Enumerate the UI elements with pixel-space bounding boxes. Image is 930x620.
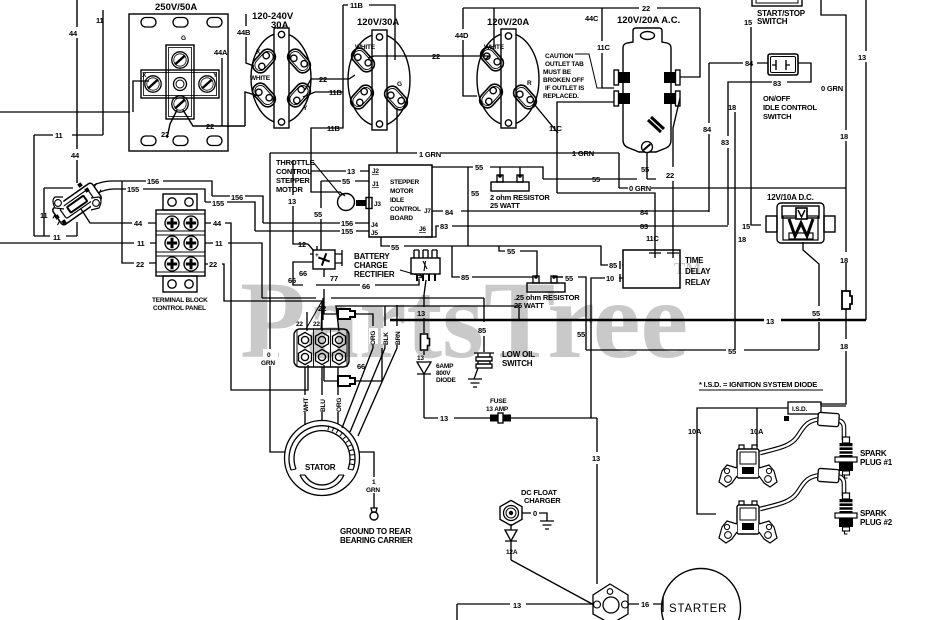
svg-text:ORG: ORG [336, 398, 343, 412]
svg-text:RELAY: RELAY [685, 278, 711, 287]
svg-text:66: 66 [299, 269, 307, 278]
resistor .25 ohm body [527, 283, 565, 292]
screw Y right [199, 76, 215, 92]
svg-text:J5: J5 [371, 230, 378, 237]
wire 18 vertical mid [734, 112, 736, 350]
breaker left mounting ear [53, 197, 64, 209]
svg-text:13: 13 [858, 53, 866, 62]
svg-text:11C: 11C [549, 124, 563, 133]
svg-text:SWITCH: SWITCH [502, 359, 533, 368]
svg-text:84: 84 [703, 125, 712, 134]
wire 0 to ground [522, 513, 547, 521]
svg-text:11: 11 [40, 211, 48, 220]
wire 44D [463, 8, 477, 96]
svg-text:22: 22 [642, 4, 650, 13]
right terminals [664, 70, 680, 106]
stator outer circle [285, 421, 360, 496]
left wires 44/11/22 [0, 181, 156, 263]
wire 83 from J6 [425, 226, 728, 237]
starter circle [662, 569, 741, 620]
svg-text:BROKEN OFF: BROKEN OFF [543, 77, 584, 84]
left ear [719, 465, 737, 487]
svg-text:IDLE CONTROL: IDLE CONTROL [763, 103, 817, 112]
terminal screws row 11 [165, 236, 179, 250]
charger connector [500, 500, 522, 525]
svg-text:PLUG #1: PLUG #1 [860, 458, 893, 467]
svg-text:155: 155 [341, 227, 353, 236]
svg-text:22: 22 [136, 260, 144, 269]
svg-text:IDLE: IDLE [390, 197, 405, 204]
terminal screws row 44 [165, 216, 179, 230]
svg-text:22: 22 [313, 321, 320, 328]
svg-text:22: 22 [666, 171, 674, 180]
breaker terminal studs [77, 182, 83, 188]
ground symbol [540, 521, 554, 529]
wire 44 vertical left [76, 0, 78, 183]
svg-text:GRN: GRN [366, 487, 380, 494]
wire 83 from switch [728, 63, 811, 225]
svg-text:K: K [256, 49, 261, 56]
wire diagonal to engine ground [511, 560, 594, 605]
svg-text:83: 83 [773, 79, 781, 88]
diode 6amp 800v [417, 362, 431, 374]
svg-text:I.S.D.: I.S.D. [792, 406, 807, 413]
svg-text:0 GRN: 0 GRN [821, 84, 843, 93]
svg-text:13: 13 [288, 197, 296, 206]
svg-text:55: 55 [475, 163, 483, 172]
svg-text:44: 44 [71, 151, 80, 160]
board rect [369, 165, 432, 237]
svg-text:11B: 11B [327, 124, 341, 133]
resistor 2 ohm body [491, 182, 529, 191]
svg-text:120V/30A: 120V/30A [357, 17, 399, 28]
svg-text:MUST BE: MUST BE [543, 69, 572, 76]
svg-text:84: 84 [445, 208, 454, 217]
mounting strap [274, 28, 289, 128]
svg-text:FUSE: FUSE [490, 398, 507, 405]
svg-text:15: 15 [742, 222, 750, 231]
wire 13 from regulator down [424, 280, 426, 355]
svg-text:13: 13 [513, 601, 521, 610]
svg-text:11C: 11C [646, 234, 660, 243]
svg-text:1 GRN: 1 GRN [419, 150, 441, 159]
connector block [294, 329, 349, 367]
start/stop switch box [752, 0, 802, 6]
label ORG vertical [369, 328, 378, 344]
svg-text:120V/20A A.C.: 120V/20A A.C. [617, 15, 680, 26]
svg-text:18: 18 [728, 103, 736, 112]
wire 13 into J2 [311, 170, 369, 172]
wire 155 into J5 [255, 230, 369, 232]
slot top-right [285, 46, 314, 75]
spark cable 2 [760, 475, 844, 509]
label ORG [334, 395, 343, 412]
right ear [759, 465, 777, 487]
svg-text:11B: 11B [329, 88, 343, 97]
stepper motor circle [338, 194, 355, 211]
bullet connector 77-ORG [338, 309, 355, 319]
svg-text:CHARGER: CHARGER [524, 496, 561, 505]
breaker right mounting ear [91, 197, 101, 210]
slot X top-left [250, 46, 279, 75]
svg-text:12A: 12A [506, 549, 518, 556]
svg-text:44B: 44B [237, 28, 251, 37]
wire 44A vertical [221, 58, 223, 126]
svg-text:11: 11 [96, 16, 104, 25]
ISD box [788, 402, 821, 414]
svg-text:GROUND TO REAR: GROUND TO REAR [340, 527, 411, 536]
ground symbol [468, 379, 482, 387]
terminal screws row 22 [165, 257, 179, 271]
svg-text:CONTROL: CONTROL [390, 206, 421, 213]
label 1 GRN [369, 477, 380, 493]
wire 55 rail lower [586, 349, 819, 351]
svg-text:11C: 11C [597, 43, 611, 52]
svg-text:55: 55 [577, 330, 585, 339]
slot Y bottom-right [285, 80, 314, 109]
label WHT [301, 395, 310, 412]
label BLU [318, 395, 327, 412]
svg-text:13: 13 [417, 355, 424, 362]
svg-text:13: 13 [592, 454, 600, 463]
DC receptacle [766, 203, 835, 243]
svg-text:16: 16 [641, 600, 649, 609]
svg-text:CONTROL PANEL: CONTROL PANEL [153, 305, 206, 312]
svg-text:ON/OFF: ON/OFF [763, 94, 791, 103]
svg-text:83: 83 [721, 138, 729, 147]
svg-text:18: 18 [840, 132, 848, 141]
wire 13 fuse rail [424, 418, 597, 584]
svg-text:11: 11 [55, 131, 63, 140]
wire 22 from bottom screw right [167, 92, 259, 138]
svg-text:83: 83 [640, 222, 648, 231]
color wires down to stator [342, 345, 397, 436]
slot R right [511, 82, 540, 111]
wire y298 rail [262, 298, 484, 320]
terminal block body [156, 194, 205, 292]
ground screw bottom [642, 142, 653, 153]
svg-text:22: 22 [319, 75, 327, 84]
wire 66 from rectifier [293, 262, 419, 285]
stator top wires WHT/BLU/ORG [305, 367, 338, 425]
wire ISD right [821, 405, 846, 407]
svg-text:STARTER: STARTER [669, 603, 727, 615]
svg-text:156: 156 [147, 177, 159, 186]
svg-text:DELAY: DELAY [685, 267, 711, 276]
svg-text:13: 13 [440, 414, 448, 423]
wire 77 from rectifier [323, 269, 325, 311]
svg-text:15: 15 [744, 18, 752, 27]
wire 11C left terminal lower [557, 102, 655, 250]
svg-text:83: 83 [440, 222, 448, 231]
starter left tick [662, 597, 664, 612]
outlet 250V/50A body [129, 14, 228, 151]
wire 13 thick rail [390, 319, 866, 322]
svg-text:12: 12 [298, 240, 306, 249]
leader to motor [313, 162, 341, 196]
svg-text:11: 11 [53, 233, 61, 242]
svg-text:44: 44 [213, 219, 222, 228]
slot bottom-left [348, 82, 377, 111]
wire BRN top [396, 305, 398, 326]
right ear [759, 521, 777, 543]
svg-text:WHT: WHT [303, 398, 310, 412]
label 0 GRN vertical wire [263, 349, 278, 366]
outlet body ellipse [251, 33, 311, 123]
caution note [543, 53, 585, 100]
wire rail y=8 [463, 8, 700, 77]
wire 22 right terminal lower [673, 98, 680, 250]
svg-text:44D: 44D [455, 31, 469, 40]
inline connector on 18 wire [842, 291, 852, 309]
wire 15 vertical [751, 27, 761, 225]
svg-text:156: 156 [231, 193, 243, 202]
breaker lower-left loop wire 11 [44, 188, 73, 236]
stator upper winding arc [289, 426, 355, 470]
coil body [737, 449, 759, 478]
svg-text:44C: 44C [585, 14, 599, 23]
wire 1 GRN rail [270, 153, 619, 452]
svg-text:J3: J3 [374, 201, 381, 208]
svg-text:IF OUTLET IS: IF OUTLET IS [545, 85, 585, 92]
wire 11 vertical [34, 10, 103, 236]
svg-text:OUTLET TAB: OUTLET TAB [545, 61, 584, 68]
svg-text:10: 10 [606, 274, 614, 283]
svg-text:250V/50A: 250V/50A [155, 2, 197, 13]
svg-text:DIODE: DIODE [436, 377, 456, 384]
svg-text:55: 55 [641, 165, 649, 174]
rectifier diagonal cross [316, 251, 332, 267]
stator winding ticks [328, 426, 355, 465]
svg-text:SPARK: SPARK [860, 449, 887, 458]
svg-text:77: 77 [330, 274, 338, 283]
wire BLK top [336, 306, 519, 331]
svg-text:11B: 11B [350, 1, 364, 10]
wire 16 to starter [628, 603, 663, 605]
svg-text:0 GRN: 0 GRN [629, 184, 651, 193]
svg-text:0: 0 [533, 509, 537, 518]
right wires 44/11/22 [205, 223, 322, 390]
wire 10 relay pin [591, 278, 623, 418]
caution leader line [575, 54, 606, 88]
svg-text:22: 22 [432, 52, 440, 61]
svg-text:SWITCH: SWITCH [757, 17, 788, 26]
wire diag into pins [306, 301, 322, 329]
svg-text:18: 18 [738, 235, 746, 244]
svg-text:SWITCH: SWITCH [763, 112, 791, 121]
mounting oval holes [141, 18, 156, 28]
svg-text:REPLACED.: REPLACED. [543, 93, 579, 100]
svg-text:R: R [527, 80, 532, 87]
wire 11B zigzag [303, 5, 345, 196]
wire 22 white-to-white [368, 56, 489, 60]
svg-text:22: 22 [161, 130, 169, 139]
svg-text:85: 85 [461, 273, 469, 282]
broken-off tab mark [648, 117, 664, 132]
svg-text:1 GRN: 1 GRN [572, 149, 594, 158]
svg-text:THROTTLE: THROTTLE [276, 158, 315, 167]
slot WHITE bottom-left [250, 80, 279, 109]
svg-text:BLU: BLU [320, 399, 327, 412]
svg-text:11: 11 [137, 239, 145, 248]
left ear [719, 521, 737, 543]
svg-text:44: 44 [69, 29, 78, 38]
circuit breaker [48, 180, 105, 229]
cross contact carrier [141, 45, 219, 119]
wire 84 from J7 [432, 210, 709, 212]
svg-text:TIME: TIME [685, 256, 704, 265]
label BRN vertical [393, 328, 402, 344]
wire 156 into J4 [263, 222, 369, 224]
svg-text:BATTERY: BATTERY [354, 252, 390, 261]
svg-text:J2: J2 [372, 168, 379, 175]
svg-text:13: 13 [347, 167, 355, 176]
svg-text:BLK: BLK [383, 332, 390, 345]
svg-text:RECTIFIER: RECTIFIER [354, 270, 395, 279]
svg-text:WHITE: WHITE [355, 44, 376, 51]
wire 55 from ground screw [646, 153, 648, 179]
svg-text:WHITE: WHITE [250, 75, 271, 82]
svg-text:STEPPER: STEPPER [390, 179, 419, 186]
svg-text:22: 22 [296, 321, 303, 328]
svg-text:155: 155 [212, 199, 224, 208]
top tab hole [641, 32, 655, 40]
svg-text:J6: J6 [419, 226, 426, 233]
svg-text:MOTOR: MOTOR [276, 185, 304, 194]
inline connector on 13 [421, 334, 430, 350]
wire 44B [246, 14, 254, 66]
svg-text:GRN: GRN [261, 360, 275, 367]
rectifier body [310, 246, 342, 269]
svg-text:25 WATT: 25 WATT [490, 201, 520, 210]
svg-text:55: 55 [342, 177, 350, 186]
svg-text:66: 66 [362, 282, 370, 291]
svg-text:13: 13 [417, 309, 425, 318]
fuse symbol [490, 413, 511, 423]
svg-text:LOW OIL: LOW OIL [502, 350, 535, 359]
svg-text:CAUTION: CAUTION [545, 53, 574, 60]
wire 22 outlet2 to outlet3 [305, 75, 355, 90]
wire 13 bottom rail [457, 604, 594, 620]
svg-text:* I.S.D. = IGNITION SYSTEM DIO: * I.S.D. = IGNITION SYSTEM DIODE [699, 380, 817, 389]
engine hex block [593, 584, 628, 620]
svg-text:6AMP: 6AMP [436, 363, 454, 370]
svg-text:MOTOR: MOTOR [390, 188, 414, 195]
wire 55 from board bottom [381, 237, 623, 265]
svg-text:0: 0 [267, 352, 271, 359]
svg-text:55: 55 [507, 247, 515, 256]
relay box [623, 250, 680, 288]
svg-text:+: + [315, 252, 319, 259]
wire right lug [554, 276, 563, 277]
relay left pins [619, 261, 621, 282]
wire 55 rail to resistor [432, 167, 656, 246]
svg-text:22: 22 [206, 122, 214, 131]
svg-text:J4: J4 [371, 222, 378, 229]
left terminals [614, 70, 630, 106]
coil body [737, 505, 759, 534]
svg-text:BOARD: BOARD [390, 215, 413, 222]
bullet connector 2 [338, 376, 355, 386]
svg-text:44: 44 [134, 219, 143, 228]
wire 0 GRN rail right [619, 0, 846, 188]
wire 18 vertical right [820, 188, 846, 404]
regulator connector [411, 250, 440, 281]
svg-text:1: 1 [372, 479, 376, 486]
spark cable 1 [760, 419, 844, 453]
svg-text:800V: 800V [436, 370, 451, 377]
leader to regulator [400, 270, 424, 278]
body [623, 28, 671, 152]
svg-text:CHARGE: CHARGE [354, 261, 388, 270]
wire to outlet1 left [0, 81, 149, 112]
wire from ISD left [697, 408, 788, 514]
svg-text:SPARK: SPARK [860, 509, 887, 518]
hex terminals [299, 332, 312, 347]
svg-text:55: 55 [471, 189, 479, 198]
DC receptacle W glyph [789, 219, 813, 236]
svg-text:55: 55 [314, 210, 322, 219]
svg-text:13: 13 [766, 317, 774, 326]
svg-text:11: 11 [215, 239, 223, 248]
svg-text:66: 66 [357, 362, 365, 371]
svg-text:J7: J7 [424, 208, 431, 215]
charger diode [505, 524, 517, 541]
svg-text:BRN: BRN [395, 331, 402, 345]
slot G right [382, 83, 411, 112]
label BLK vertical [381, 328, 390, 344]
idle control switch [768, 54, 798, 75]
svg-text:55: 55 [565, 274, 573, 283]
svg-text:TERMINAL BLOCK: TERMINAL BLOCK [152, 297, 208, 304]
svg-text:85: 85 [478, 326, 486, 335]
svg-text:10A: 10A [688, 427, 702, 436]
svg-text:55: 55 [812, 309, 820, 318]
screw G top [172, 52, 188, 68]
wires 155/156 from breaker [94, 181, 263, 231]
svg-text:18: 18 [840, 342, 848, 351]
ground bolt [371, 508, 377, 512]
svg-text:13 AMP: 13 AMP [486, 406, 509, 413]
low oil switch symbol [474, 353, 494, 379]
wire 1 GRN to ground bolt [359, 452, 374, 508]
svg-text:55: 55 [728, 347, 736, 356]
svg-text:G: G [181, 35, 186, 42]
stator lower winding arc [300, 475, 344, 489]
svg-text:J1: J1 [372, 181, 379, 188]
slot WHITE top-left [349, 45, 378, 74]
wire 55 from DC [803, 242, 819, 350]
slot bottom-left [477, 81, 506, 110]
svg-text:66: 66 [288, 276, 296, 285]
svg-text:18: 18 [840, 256, 848, 265]
center pilot [174, 78, 187, 91]
motor cable thick [356, 200, 369, 206]
svg-text:G: G [397, 81, 402, 88]
wire 13 right vertical [865, 0, 867, 320]
svg-text:CONTROL: CONTROL [276, 167, 312, 176]
wire 85 to low oil switch [483, 298, 485, 352]
wire 55 into J1 [321, 181, 369, 250]
relay top pins [649, 250, 679, 258]
svg-text:55: 55 [391, 243, 399, 252]
wire 44C vertical [602, 8, 614, 88]
svg-text:84: 84 [745, 59, 754, 68]
svg-text:84: 84 [640, 208, 649, 217]
svg-text:155: 155 [127, 185, 139, 194]
svg-text:55: 55 [592, 175, 600, 184]
svg-text:44A: 44A [214, 48, 228, 57]
